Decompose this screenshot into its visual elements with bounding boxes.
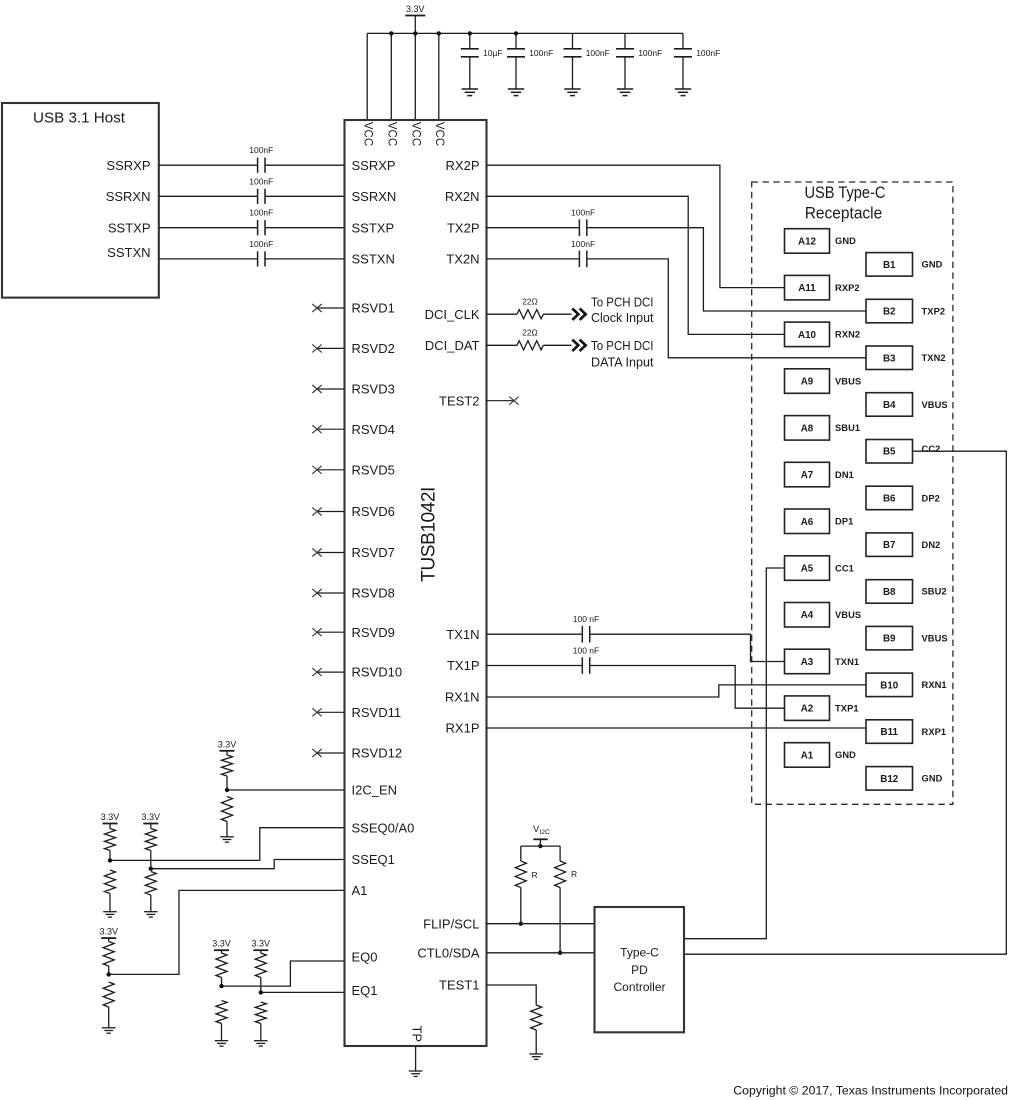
junction on VCC rail [389, 31, 393, 35]
junction on VCC rail [437, 31, 441, 35]
receptacle pin B12 (GND) [866, 767, 913, 791]
resistor pull-down (EQ0) [216, 1001, 227, 1024]
svg-text:EQ0: EQ0 [352, 950, 378, 965]
svg-text:A12: A12 [798, 236, 817, 247]
capacitor 100nF series (SSRXP line) [257, 158, 259, 173]
svg-text:RX1P: RX1P [446, 721, 480, 736]
svg-text:VCC: VCC [410, 122, 422, 146]
no-connect X RSVD4 [317, 428, 345, 430]
svg-text:22Ω: 22Ω [522, 328, 537, 338]
svg-text:A5: A5 [801, 564, 814, 575]
wire CTL0/SDA to PD controller [487, 952, 595, 954]
resistor pull-down (I2C_EN) [222, 797, 233, 822]
svg-text:100nF: 100nF [249, 208, 273, 218]
receptacle pin A7 (DN1) [785, 462, 830, 487]
svg-text:10µF: 10µF [483, 48, 503, 58]
svg-text:DCI_CLK: DCI_CLK [425, 307, 480, 322]
svg-text:100nF: 100nF [249, 239, 273, 249]
receptacle pin A5 (CC1) [785, 556, 830, 581]
resistor pull-up (A1) [108, 938, 110, 941]
junction on VCC rail [413, 31, 417, 35]
receptacle pin A2 (TXP1) [785, 696, 830, 721]
svg-text:VBUS: VBUS [922, 633, 948, 643]
ground (TP) [409, 1070, 423, 1072]
resistor pull-up (EQ1) [260, 950, 262, 953]
svg-text:VBUS: VBUS [922, 400, 948, 410]
svg-text:To PCH DCI: To PCH DCI [591, 294, 654, 309]
svg-text:RSVD5: RSVD5 [352, 462, 395, 477]
svg-text:100nF: 100nF [529, 48, 553, 58]
svg-text:100nF: 100nF [249, 176, 273, 186]
svg-text:DCI_DAT: DCI_DAT [425, 338, 480, 353]
svg-text:GND: GND [922, 260, 943, 270]
junction FLIP/SCL [519, 922, 523, 926]
wire TX2P to cap [487, 227, 580, 229]
wire RX1N to B10 RXN1 [487, 685, 867, 697]
wire SSTXN cap to U1 [265, 258, 345, 260]
svg-text:RX2P: RX2P [446, 158, 480, 173]
resistor pull-down (TEST1) [487, 985, 537, 1005]
svg-text:A2: A2 [801, 704, 814, 715]
ground (SSEQ0 divider) [103, 911, 117, 913]
svg-text:B10: B10 [880, 680, 899, 691]
no-connect X RSVD8 [317, 592, 345, 594]
svg-text:VBUS: VBUS [835, 610, 861, 620]
receptacle pin B3 (TXN2) [866, 346, 913, 370]
wire SSRXN host to cap [159, 195, 258, 197]
capacitor 100 nF series (TX1N line) [581, 626, 583, 643]
svg-text:PD: PD [631, 963, 648, 977]
capacitor 100nF bypass 4 (with ground) [682, 33, 684, 48]
resistor pull-up (I2C_EN) [226, 751, 228, 755]
svg-text:RXN2: RXN2 [835, 330, 860, 340]
receptacle pin B10 (RXN1) [866, 673, 913, 697]
svg-text:SSTXP: SSTXP [352, 220, 395, 235]
svg-text:CC2: CC2 [922, 444, 941, 454]
wire V_I2C to pull-ups [539, 839, 541, 846]
wire resistor to connector arrow [543, 344, 571, 346]
svg-text:RSVD3: RSVD3 [352, 382, 395, 397]
svg-text:DN2: DN2 [922, 540, 941, 550]
junction A1 divider [107, 972, 111, 976]
svg-text:100nF: 100nF [638, 48, 662, 58]
wire resistor to connector arrow [543, 313, 571, 315]
wire TX2N cap to B3 TXN2 [587, 259, 866, 358]
svg-text:DP2: DP2 [922, 493, 940, 503]
capacitor 100nF series (SSTXP line) [257, 220, 259, 235]
receptacle pin A4 (VBUS) [785, 603, 830, 628]
svg-text:3.3V: 3.3V [101, 812, 120, 822]
svg-text:100nF: 100nF [696, 48, 720, 58]
junction EQ1 divider [259, 990, 263, 994]
svg-text:DN1: DN1 [835, 470, 854, 480]
svg-text:100 nF: 100 nF [573, 614, 599, 624]
svg-text:SSRXN: SSRXN [106, 189, 151, 204]
svg-text:RX2N: RX2N [445, 189, 480, 204]
svg-text:SSRXN: SSRXN [352, 189, 397, 204]
no-connect X RSVD6 [317, 511, 345, 513]
svg-text:VBUS: VBUS [835, 376, 861, 386]
svg-text:100nF: 100nF [571, 239, 595, 249]
wire SSEQ0/A0 [110, 828, 345, 861]
svg-text:A10: A10 [798, 330, 817, 341]
svg-text:RXP1: RXP1 [922, 727, 947, 737]
wire TX1N to cap [487, 633, 583, 635]
IC U1 TUSB1042I [345, 120, 487, 1046]
resistor pull-down (A1) [103, 982, 114, 1007]
capacitor 100nF series (SSRXN line) [257, 189, 259, 204]
svg-text:A1: A1 [352, 883, 368, 898]
off-page connector chevron [572, 309, 578, 320]
svg-text:SSRXP: SSRXP [106, 158, 150, 173]
svg-text:Receptacle: Receptacle [805, 204, 883, 222]
wire TX1N cap to A3 TXN1 [590, 634, 785, 661]
receptacle pin B2 (TXP2) [866, 299, 913, 323]
capacitor 100nF series (SSTXN line) [257, 251, 259, 266]
off-page connector chevron [572, 340, 578, 351]
svg-text:A6: A6 [801, 517, 814, 528]
junction SSEQ1 divider [149, 867, 153, 871]
svg-text:B12: B12 [880, 774, 899, 785]
wire CC2: B5 to PD controller [684, 451, 1006, 954]
capacitor 100nF bypass 1 (with ground) [515, 33, 517, 48]
no-connect X RSVD12 [317, 752, 345, 754]
svg-text:B6: B6 [883, 493, 896, 504]
svg-text:Copyright © 2017, Texas Instru: Copyright © 2017, Texas Instruments Inco… [733, 1084, 1008, 1098]
USB 3.1 Host box [2, 103, 159, 298]
svg-text:VCC: VCC [386, 122, 398, 146]
svg-text:SSRXP: SSRXP [352, 158, 396, 173]
resistor pull-down (EQ1) [255, 1002, 266, 1024]
receptacle pin B7 (DN2) [866, 533, 913, 557]
receptacle pin B4 (VBUS) [866, 393, 913, 417]
svg-text:100nF: 100nF [249, 145, 273, 155]
no-connect X RSVD9 [317, 631, 345, 633]
receptacle pin B9 (VBUS) [866, 626, 913, 650]
svg-text:To PCH DCI: To PCH DCI [591, 338, 654, 353]
svg-text:3.3V: 3.3V [212, 939, 231, 949]
wire FLIP/SCL to PD controller [487, 923, 595, 925]
svg-text:RSVD11: RSVD11 [352, 705, 402, 720]
capacitor 10uF bypass (with ground) [469, 33, 471, 48]
svg-text:RSVD6: RSVD6 [352, 504, 395, 519]
wire SSTXP host to cap [159, 227, 258, 229]
svg-text:3.3V: 3.3V [99, 927, 118, 937]
wire TX1P cap to A2 TXP1 [590, 666, 785, 709]
receptacle pin A3 (TXN1) [785, 649, 830, 674]
no-connect X RSVD11 [317, 711, 345, 713]
svg-text:TXP2: TXP2 [922, 306, 946, 316]
capacitor 100nF bypass 2 (with ground) [572, 33, 574, 48]
wire VCC pin 3 [414, 33, 416, 120]
svg-text:B8: B8 [883, 587, 896, 598]
wire VCC pin 4 [438, 33, 440, 120]
wire EQ1 [261, 991, 345, 993]
receptacle pin A10 (RXN2) [785, 322, 830, 347]
receptacle pin A9 (VBUS) [785, 369, 830, 394]
svg-text:RSVD8: RSVD8 [352, 586, 395, 601]
svg-text:3.3V: 3.3V [252, 939, 271, 949]
svg-text:Controller: Controller [613, 980, 665, 994]
svg-text:A3: A3 [801, 657, 814, 668]
svg-text:RSVD7: RSVD7 [352, 545, 395, 560]
wire RX2N to A10 RXN2 [487, 196, 785, 334]
ground (A1 divider) [102, 1027, 116, 1029]
no-connect X RSVD2 [317, 347, 345, 349]
svg-text:RSVD9: RSVD9 [352, 625, 395, 640]
svg-text:SSTXN: SSTXN [352, 252, 395, 267]
svg-text:DP1: DP1 [835, 517, 853, 527]
resistor R (CTL0/SDA pull-up) [559, 846, 561, 861]
ground (TEST1) [529, 1053, 543, 1055]
svg-text:B7: B7 [883, 540, 896, 551]
wire SSRXP host to cap [159, 164, 258, 166]
receptacle pin B5 (CC2) [866, 440, 913, 464]
svg-text:RX1N: RX1N [445, 690, 480, 705]
svg-text:A11: A11 [798, 283, 816, 294]
svg-text:TX1N: TX1N [446, 627, 479, 642]
wire TX2N to cap [487, 258, 580, 260]
resistor pull-down (SSEQ0) [105, 870, 116, 894]
svg-text:22Ω: 22Ω [522, 297, 537, 307]
wire A1 [109, 890, 345, 974]
svg-text:TX2N: TX2N [446, 252, 479, 267]
resistor pull-down (SSEQ1) [145, 872, 156, 896]
capacitor 100nF bypass 3 (with ground) [624, 33, 626, 48]
svg-text:RXP2: RXP2 [835, 283, 860, 293]
svg-text:B3: B3 [883, 353, 896, 364]
svg-text:RSVD2: RSVD2 [352, 341, 395, 356]
svg-text:A9: A9 [801, 377, 814, 388]
svg-text:B9: B9 [883, 634, 896, 645]
svg-text:A1: A1 [801, 750, 814, 761]
no-connect X RSVD10 [317, 671, 345, 673]
svg-text:B2: B2 [883, 307, 896, 318]
capacitor 100 nF series (TX1P line) [581, 657, 583, 674]
receptacle pin A6 (DP1) [785, 509, 830, 534]
svg-text:RXN1: RXN1 [922, 680, 947, 690]
wire VCC pin 1 [366, 33, 368, 120]
ground (EQ0 divider) [215, 1040, 229, 1042]
svg-text:TXN2: TXN2 [922, 353, 946, 363]
svg-text:B5: B5 [883, 447, 896, 458]
svg-text:TXP1: TXP1 [835, 704, 859, 714]
svg-text:A7: A7 [801, 470, 814, 481]
junction SSEQ0 divider [108, 858, 112, 862]
Type-C PD Controller box [595, 907, 685, 1032]
junction on VCC rail [468, 31, 472, 35]
svg-text:TP: TP [410, 1025, 425, 1042]
svg-text:SSEQ1: SSEQ1 [352, 852, 395, 867]
receptacle pin A8 (SBU1) [785, 416, 830, 441]
svg-text:3.3V: 3.3V [142, 812, 161, 822]
wire SSEQ1 [151, 860, 345, 869]
USB Type-C Receptacle dashed box [752, 182, 953, 804]
svg-text:100nF: 100nF [571, 208, 595, 218]
svg-text:3.3V: 3.3V [406, 4, 425, 14]
svg-text:SBU2: SBU2 [922, 587, 947, 597]
receptacle pin B1 (GND) [866, 253, 913, 277]
svg-text:TX2P: TX2P [447, 220, 480, 235]
svg-text:B1: B1 [883, 260, 896, 271]
svg-text:FLIP/SCL: FLIP/SCL [423, 916, 479, 931]
svg-text:100 nF: 100 nF [573, 646, 599, 656]
receptacle pin B8 (SBU2) [866, 580, 913, 604]
svg-text:TUSB1042I: TUSB1042I [419, 487, 440, 582]
resistor pull-up (SSEQ1) [150, 824, 152, 829]
svg-text:RSVD12: RSVD12 [352, 746, 403, 761]
no-connect X RSVD5 [317, 469, 345, 471]
junction on VCC rail [514, 31, 518, 35]
no-connect X RSVD3 [317, 388, 345, 390]
ground (EQ1 divider) [254, 1040, 268, 1042]
resistor pull-up (EQ0) [221, 950, 223, 953]
capacitor 100nF series (TX2P line) [578, 219, 580, 236]
svg-text:USB Type-C: USB Type-C [805, 184, 886, 202]
resistor 22 ohm (DCI_DAT series) [517, 341, 543, 350]
svg-text:SSTXP: SSTXP [108, 220, 151, 235]
wire RX1P to B11 RXP1 [487, 727, 867, 729]
svg-text:B4: B4 [883, 400, 896, 411]
junction EQ0 divider [219, 984, 223, 988]
svg-text:Type-C: Type-C [620, 945, 659, 959]
svg-text:VCC: VCC [362, 122, 374, 146]
receptacle pin B6 (DP2) [866, 486, 913, 510]
svg-text:USB 3.1 Host: USB 3.1 Host [33, 110, 126, 127]
wire VCC pin 2 [390, 33, 392, 120]
svg-text:SSEQ0/A0: SSEQ0/A0 [352, 820, 415, 835]
svg-text:Clock Input: Clock Input [591, 310, 654, 325]
svg-text:RSVD4: RSVD4 [352, 422, 395, 437]
svg-text:TEST2: TEST2 [439, 393, 479, 408]
svg-text:B11: B11 [881, 727, 899, 738]
wire TP to ground [415, 1046, 417, 1071]
svg-text:DATA Input: DATA Input [591, 354, 654, 369]
svg-text:CTL0/SDA: CTL0/SDA [417, 945, 479, 960]
svg-text:R: R [571, 869, 577, 879]
svg-text:GND: GND [835, 236, 856, 246]
ground (I2C_EN divider) [220, 836, 234, 838]
junction V_I2C [538, 844, 542, 848]
svg-text:TX1P: TX1P [447, 658, 480, 673]
svg-text:RSVD10: RSVD10 [352, 665, 403, 680]
svg-text:100nF: 100nF [586, 48, 610, 58]
svg-text:GND: GND [922, 774, 943, 784]
receptacle pin B11 (RXP1) [866, 720, 913, 744]
no-connect X RSVD7 [317, 552, 345, 554]
resistor pull-up (SSEQ0) [109, 824, 111, 829]
svg-text:SSTXN: SSTXN [107, 245, 150, 260]
junction CTL0/SDA [558, 951, 562, 955]
receptacle pin A1 (GND) [785, 743, 830, 768]
resistor 22 ohm (DCI_CLK series) [517, 310, 543, 319]
svg-text:3.3V: 3.3V [218, 739, 237, 749]
svg-text:EQ1: EQ1 [352, 983, 378, 998]
svg-text:CC1: CC1 [835, 563, 854, 573]
svg-text:TEST1: TEST1 [439, 978, 479, 993]
wire TX2P cap to B2 TXP2 [587, 228, 866, 311]
svg-text:SBU1: SBU1 [835, 423, 860, 433]
wire DCI_DAT to resistor [487, 344, 518, 346]
junction I2C_EN divider [225, 788, 229, 792]
receptacle pin A11 (RXP2) [785, 275, 830, 300]
receptacle pin A12 (GND) [785, 229, 830, 254]
no-connect X TEST2 [487, 400, 515, 402]
wire CC1: A5 to PD controller [684, 568, 785, 939]
wire SSTXN host to cap [159, 258, 258, 260]
wire VCC rail [367, 32, 683, 34]
wire DCI_CLK to resistor [487, 313, 518, 315]
wire I2C_EN [227, 789, 345, 791]
svg-text:A8: A8 [801, 423, 814, 434]
wire RX2P to A11 RXP2 [487, 165, 785, 287]
svg-text:R: R [532, 870, 538, 880]
svg-text:A4: A4 [801, 610, 814, 621]
wire SSRXP cap to U1 [265, 164, 345, 166]
svg-text:VCC: VCC [433, 122, 445, 146]
wire TX1P to cap [487, 665, 583, 667]
svg-text:RSVD1: RSVD1 [352, 301, 395, 316]
svg-text:GND: GND [835, 750, 856, 760]
no-connect X RSVD1 [317, 307, 345, 309]
wire SSTXP cap to U1 [265, 227, 345, 229]
resistor R (FLIP/SCL pull-up) [520, 846, 522, 861]
svg-text:TXN1: TXN1 [835, 657, 859, 667]
svg-text:I2C_EN: I2C_EN [352, 783, 398, 798]
wire SSRXN cap to U1 [265, 195, 345, 197]
wire EQ0 [222, 961, 345, 986]
ground (SSEQ1 divider) [144, 911, 158, 913]
capacitor 100nF series (TX2N line) [578, 251, 580, 268]
